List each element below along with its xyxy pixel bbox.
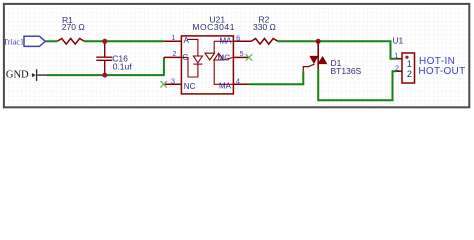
svg-text:3: 3 bbox=[171, 76, 175, 85]
svg-text:1: 1 bbox=[407, 59, 412, 69]
svg-text:330 Ω: 330 Ω bbox=[253, 22, 276, 32]
svg-text:A: A bbox=[184, 36, 190, 45]
svg-text:U1: U1 bbox=[392, 35, 403, 45]
svg-text:NC: NC bbox=[184, 82, 196, 91]
svg-text:270 Ω: 270 Ω bbox=[62, 22, 85, 32]
svg-text:2: 2 bbox=[407, 69, 412, 79]
svg-text:6: 6 bbox=[236, 33, 240, 42]
svg-text:1: 1 bbox=[394, 51, 398, 60]
svg-text:HOT-IN: HOT-IN bbox=[419, 56, 455, 67]
svg-text:MA: MA bbox=[219, 82, 232, 91]
svg-text:MA: MA bbox=[220, 36, 233, 45]
svg-text:4: 4 bbox=[236, 76, 240, 85]
svg-text:5: 5 bbox=[240, 49, 244, 58]
svg-text:HOT-OUT: HOT-OUT bbox=[418, 66, 465, 77]
svg-text:C: C bbox=[183, 53, 189, 62]
svg-text:Triac1: Triac1 bbox=[3, 37, 24, 46]
svg-text:BT136S: BT136S bbox=[331, 66, 362, 76]
svg-text:0.1uf: 0.1uf bbox=[113, 62, 133, 72]
svg-text:1: 1 bbox=[171, 33, 175, 42]
svg-text:GND: GND bbox=[6, 69, 29, 80]
svg-text:MOC3041: MOC3041 bbox=[192, 22, 235, 32]
svg-text:MC: MC bbox=[218, 54, 231, 63]
svg-text:2: 2 bbox=[395, 64, 399, 73]
svg-text:2: 2 bbox=[172, 49, 176, 58]
